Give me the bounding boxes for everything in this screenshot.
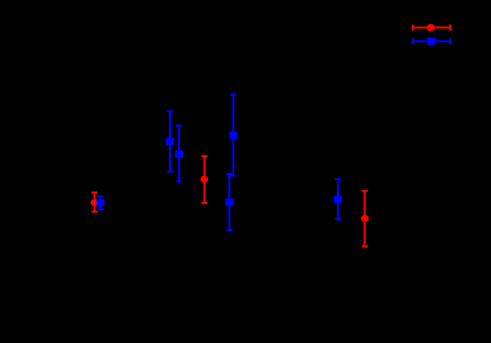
blue errorbar point 1 — [96, 196, 104, 209]
blue errorbar point 5 — [225, 174, 233, 230]
blue errorbar point 4 — [229, 95, 237, 176]
blue series (squares with y error bars) — [96, 38, 451, 231]
red errorbar point 3 — [361, 191, 369, 247]
red series (circles with y error bars) — [91, 24, 451, 246]
blue errorbar point 2 — [166, 111, 174, 171]
blue errorbar point 6 — [334, 179, 342, 219]
red errorbar point 2 — [200, 156, 208, 203]
blue legend sample — [412, 38, 451, 45]
red legend sample — [412, 24, 451, 31]
red errorbar point 1 — [91, 193, 99, 212]
blue errorbar point 3 — [175, 126, 183, 182]
